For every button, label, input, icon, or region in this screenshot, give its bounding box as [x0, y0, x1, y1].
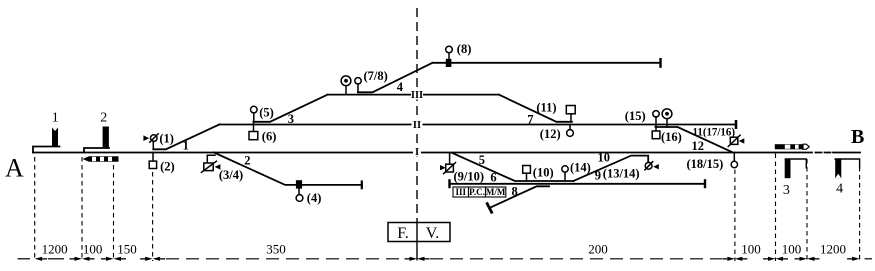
node: track 8 right tick — [704, 180, 706, 187]
svg-text:2: 2 — [244, 154, 250, 168]
signal (12) circle — [567, 125, 574, 137]
track 8 — [450, 183, 706, 185]
wire: dead-end spur track 8a — [489, 186, 549, 208]
track I main line — [33, 152, 860, 154]
svg-text:9: 9 — [595, 169, 601, 183]
node: siding end tick — [361, 182, 363, 189]
signal (17/16) dwarf: slashed square + arrow — [728, 135, 744, 146]
measure line mast 3 right — [806, 159, 808, 261]
signal (13/14) dwarf: slashed circle + arrow — [645, 162, 659, 170]
signal (1) dwarf: arrow + slashed circle — [143, 134, 158, 150]
svg-text:2: 2 — [100, 111, 107, 126]
svg-text:(15): (15) — [625, 109, 646, 123]
signal (6) square — [249, 122, 258, 140]
svg-text:A: A — [5, 154, 24, 183]
wire: switch 2 slope — [214, 153, 362, 185]
wire: switch 1 slope with signal jog — [153, 125, 219, 150]
measure line mast 3 left — [775, 154, 777, 262]
measure line at A end — [34, 157, 36, 261]
svg-text:I: I — [415, 147, 419, 158]
svg-text:(10): (10) — [533, 165, 554, 179]
signal (10) square — [523, 166, 531, 182]
node: track 8 left tick — [448, 180, 450, 187]
svg-text:B: B — [851, 126, 864, 148]
svg-text:III: III — [411, 90, 423, 101]
track II — [219, 124, 736, 126]
wire: switch 9/10 slope with signal jog — [574, 156, 649, 181]
svg-text:(4): (4) — [307, 191, 322, 205]
signal (11) square — [566, 106, 575, 122]
centerline F.V. axis — [416, 8, 418, 218]
svg-text:M/M: M/M — [486, 187, 506, 197]
svg-text:III: III — [455, 187, 466, 197]
svg-text:100: 100 — [782, 241, 802, 256]
signal (14) circle — [562, 166, 568, 180]
svg-text:4: 4 — [397, 80, 404, 94]
measure line signal 18/15 — [734, 170, 736, 262]
signal (18/15) circle — [731, 153, 737, 168]
svg-text:(7/8): (7/8) — [364, 69, 388, 83]
node: track II right buffer tick — [735, 121, 738, 127]
svg-text:11(17/16): 11(17/16) — [693, 126, 736, 138]
svg-text:P.C.: P.C. — [469, 187, 485, 197]
signal (8): circle + filled derail square on track 4 — [446, 46, 453, 67]
svg-text:7: 7 — [527, 112, 533, 126]
dimension labels — [42, 241, 846, 256]
measure line B end — [859, 159, 861, 261]
wire: left end step bracket (mast 1 base) — [33, 147, 60, 153]
svg-text:(1): (1) — [159, 131, 174, 145]
node I roman numeral on axis — [413, 147, 421, 159]
svg-text:12: 12 — [692, 139, 705, 153]
svg-text:(9/10): (9/10) — [454, 169, 485, 183]
wire: switch 7 slope with signal jog — [499, 95, 572, 122]
svg-text:(3/4): (3/4) — [219, 168, 243, 182]
svg-text:3: 3 — [288, 112, 294, 126]
signal (16) square — [652, 127, 660, 139]
svg-text:200: 200 — [588, 241, 608, 256]
signal (7/8): double circle + circle — [341, 76, 361, 95]
svg-text:5: 5 — [479, 153, 485, 167]
wire: switch 4 slope with signal jog — [358, 63, 432, 93]
signal (4): filled square on track + circle — [296, 180, 303, 201]
dashed measure verticals — [35, 154, 860, 262]
train symbol left (arrow) — [83, 156, 119, 162]
svg-text:8: 8 — [512, 185, 518, 199]
measure line bracket 2 end — [113, 157, 115, 261]
svg-text:(8): (8) — [457, 42, 472, 56]
svg-text:(5): (5) — [259, 105, 274, 119]
mast 1 semaphore — [52, 128, 58, 147]
node II roman numeral on axis — [412, 119, 423, 131]
svg-text:100: 100 — [741, 241, 761, 256]
svg-text:(14): (14) — [570, 160, 591, 174]
svg-text:(16): (16) — [661, 130, 682, 144]
wire: mast 2 bracket — [84, 148, 109, 153]
mast 2 semaphore — [103, 127, 109, 149]
svg-text:10: 10 — [598, 150, 611, 164]
svg-text:350: 350 — [266, 241, 286, 256]
svg-text:1200: 1200 — [820, 241, 846, 256]
wire: switch 3 slope with signal jog — [254, 95, 328, 122]
F.V. box — [388, 218, 450, 261]
svg-text:4: 4 — [836, 182, 843, 197]
svg-text:1200: 1200 — [42, 241, 68, 256]
track III — [328, 94, 499, 96]
node: track 4 end tick — [659, 59, 661, 66]
svg-text:1: 1 — [183, 138, 189, 152]
signal (5) circle on mast — [251, 106, 258, 122]
measure line mast 2 — [81, 157, 83, 261]
svg-text:(18/15): (18/15) — [687, 157, 724, 171]
svg-text:(2): (2) — [160, 160, 175, 174]
svg-text:(13/14): (13/14) — [603, 166, 640, 180]
svg-text:(6): (6) — [262, 130, 277, 144]
signal (15)/(16) group: circle + double circle — [653, 109, 672, 127]
mast 3 semaphore with bracket — [785, 159, 807, 178]
svg-text:3: 3 — [783, 183, 790, 198]
wire: switch 5 slope — [452, 153, 574, 181]
svg-text:II: II — [413, 120, 421, 131]
svg-text:F.: F. — [397, 225, 409, 242]
node: spur buffer stop — [487, 204, 491, 213]
svg-text:V.: V. — [426, 225, 440, 242]
svg-text:150: 150 — [117, 241, 137, 256]
station name boxes III / P.C. / M/M — [453, 187, 506, 197]
svg-text:1: 1 — [52, 111, 59, 126]
signal (9/10) dwarf: arrow + slashed square — [440, 153, 456, 174]
signal (2) square — [149, 153, 156, 169]
svg-text:(11): (11) — [536, 100, 556, 114]
track 4 stub — [432, 62, 660, 64]
train symbol right (arrow) — [775, 144, 809, 149]
dimension line with arrows — [18, 258, 873, 260]
svg-text:(12): (12) — [540, 127, 561, 141]
svg-text:100: 100 — [83, 241, 103, 256]
node III roman numeral on axis — [411, 89, 423, 101]
mast 4 semaphore with bracket — [834, 159, 859, 178]
signal (3/4) dwarf: slashed square + arrow — [201, 155, 220, 172]
measure line signal 1 — [152, 172, 154, 261]
svg-text:6: 6 — [490, 170, 496, 184]
wire: switch 11/12 slope with signal jog — [656, 127, 732, 152]
